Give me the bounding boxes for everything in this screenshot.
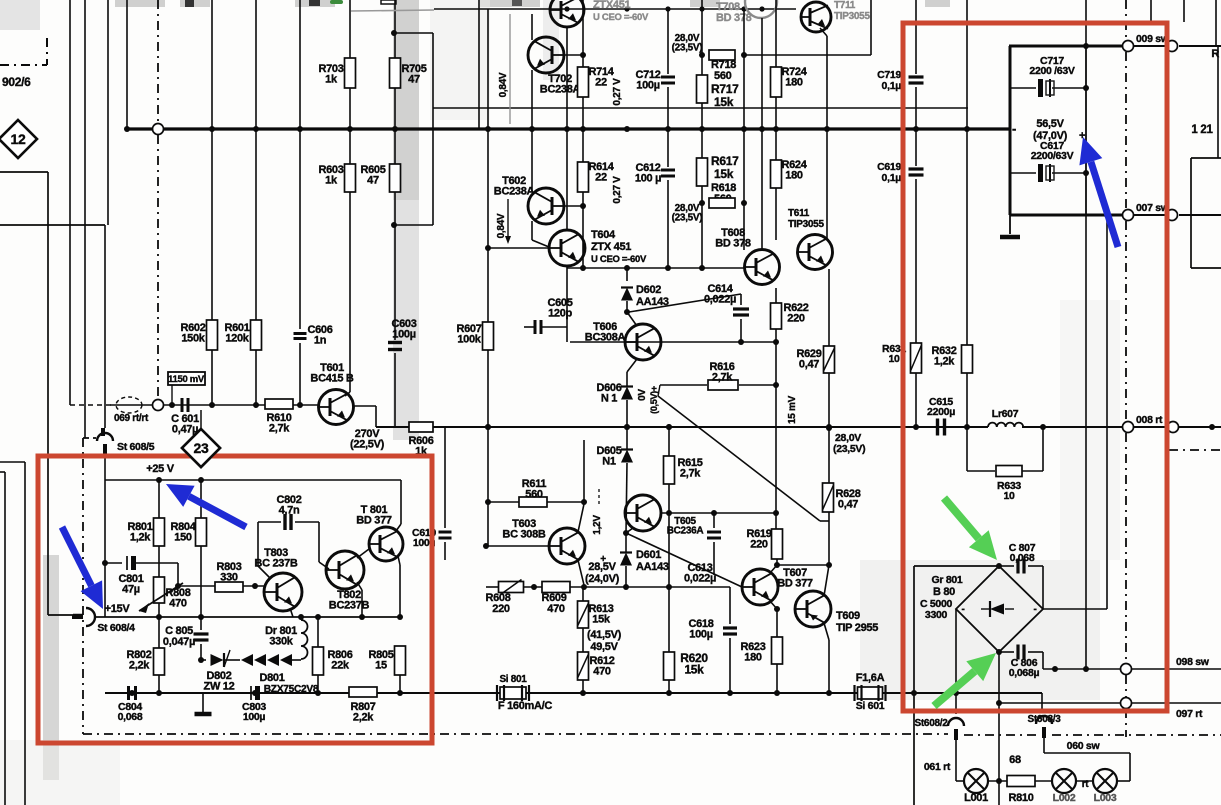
resistor R807 on bus	[349, 687, 377, 697]
svg-text:15k: 15k	[714, 95, 734, 109]
green registration mark top	[330, 0, 343, 4]
fuse Si601 F1,6A	[858, 687, 883, 699]
diode D602 AA143	[626, 268, 628, 281]
capacitor C803	[250, 686, 252, 700]
boxed label 1150mV	[168, 372, 205, 385]
measure 1,2V marks	[598, 489, 600, 505]
white box mark top	[381, 0, 396, 4]
svg-text:U CEO =-60V: U CEO =-60V	[593, 12, 649, 23]
svg-text:+: +	[600, 554, 606, 565]
resistor R605	[390, 164, 401, 192]
cap bank right rail x1086	[1085, 0, 1087, 46]
svg-text:BC238A: BC238A	[540, 83, 581, 95]
svg-text:15 mV: 15 mV	[787, 395, 798, 424]
wire C802 right to T802 base	[318, 522, 320, 562]
wire x1107 rail down	[1106, 215, 1108, 609]
wire x999 down to edge	[998, 703, 1000, 805]
svg-text:0,27 V: 0,27 V	[612, 78, 623, 106]
svg-text:B 80: B 80	[933, 586, 955, 598]
wire T602 base to R614 line	[564, 205, 583, 207]
wire vertical x532 T702 collector	[531, 14, 533, 40]
wire T607 collector	[770, 565, 777, 573]
svg-text:15k: 15k	[684, 662, 704, 676]
bridge rectifier Gr801 B80	[956, 566, 1043, 652]
svg-text:(23,5V): (23,5V)	[672, 43, 703, 54]
resistor R606 1k on rail	[409, 422, 433, 432]
svg-text:49,5V: 49,5V	[590, 641, 618, 653]
svg-text:10: 10	[1003, 490, 1015, 502]
wire diagonal to T607 base	[626, 533, 742, 587]
wire vertical x256 R601 branch	[255, 0, 257, 320]
transistor T708 BD378 (top)	[745, 0, 777, 18]
resistor R618 (horizontal)	[709, 198, 735, 208]
inductor Dr801	[301, 620, 308, 659]
dashed measure oval 069rt	[116, 397, 142, 413]
wire x829 middle	[828, 373, 830, 565]
wire 098sw line y669	[1043, 668, 1122, 670]
svg-text:180: 180	[785, 169, 803, 181]
svg-text:(0,5V)+: (0,5V)+	[649, 386, 659, 414]
svg-text:220: 220	[492, 603, 510, 615]
wire bus corner to St608/3	[1041, 693, 1043, 712]
transistor T711 TIP3055 (top)	[801, 2, 831, 32]
resistor R609	[524, 586, 542, 588]
resistor R631 (safety)	[911, 343, 922, 373]
resistor R623	[776, 609, 778, 637]
svg-text:0,068µ: 0,068µ	[1009, 667, 1040, 679]
svg-text:2,2k: 2,2k	[353, 711, 374, 723]
capacitor C807	[999, 565, 1014, 567]
svg-text:47: 47	[367, 174, 379, 186]
resistor R611	[486, 501, 519, 503]
node circle right of red box	[1168, 422, 1179, 433]
wire vertical x776 R724/R624	[775, 0, 777, 67]
wire C801 elbow to R808 wiper	[160, 562, 178, 564]
svg-text:330: 330	[220, 571, 238, 583]
svg-text:ZTX451: ZTX451	[593, 0, 631, 11]
svg-text:(41,5V): (41,5V)	[587, 629, 622, 641]
svg-text:L003: L003	[1094, 792, 1117, 804]
svg-text:0,27 V: 0,27 V	[612, 176, 623, 204]
wire bottom vertex down	[998, 652, 1000, 703]
wire T801 collector	[400, 480, 402, 524]
resistor R603	[345, 164, 356, 192]
wire T605 emitter down	[626, 528, 633, 533]
resistor R705	[390, 58, 401, 88]
wire y225 R705 branch	[394, 224, 433, 226]
resistor R616 with row	[660, 384, 707, 386]
wire vertical x567 T704-T604	[566, 27, 568, 230]
wire R810 to L002	[1035, 780, 1052, 782]
wire vertical x702 R717/R617	[701, 0, 703, 75]
svg-text:220: 220	[787, 312, 805, 324]
svg-text:098 sw: 098 sw	[1176, 656, 1210, 668]
svg-text:060 sw: 060 sw	[1067, 740, 1101, 752]
svg-text:Si 801: Si 801	[499, 674, 527, 685]
svg-text:T711: T711	[834, 0, 856, 11]
resistor R632	[962, 345, 973, 373]
svg-text:0,47µ: 0,47µ	[172, 423, 198, 435]
top edge stubs right	[1150, 0, 1152, 22]
transistor T603 BC308B	[549, 528, 585, 564]
resistor R714	[578, 67, 589, 97]
svg-text:+25 V: +25 V	[146, 463, 175, 475]
capacitor C603	[388, 341, 402, 344]
transistor T607 BD377	[742, 569, 778, 605]
wire vertical x668 C712/C612	[667, 9, 669, 74]
scan artifact bands	[393, 0, 419, 200]
wire vertical x827 T711-T611	[820, 28, 827, 36]
svg-text:56,5V: 56,5V	[1036, 118, 1064, 130]
svg-text:23: 23	[194, 440, 209, 456]
svg-text:-: -	[961, 604, 964, 615]
node circle 009sw outer	[1167, 41, 1178, 52]
ground symbol cap bank	[1009, 215, 1011, 234]
lamp L002	[1052, 769, 1076, 793]
cap bank left rail x1010	[1009, 46, 1012, 215]
svg-text:560: 560	[714, 70, 732, 82]
trimmer R608	[499, 582, 524, 593]
wire left vertical C	[107, 0, 109, 225]
svg-text:3300: 3300	[925, 609, 948, 621]
svg-text:1k: 1k	[325, 73, 338, 85]
wire vertical x212 R602 branch	[211, 0, 213, 320]
wire base line T604 y248	[488, 247, 549, 249]
wire T603 emitter	[578, 560, 584, 585]
wire 097rt line y703	[999, 702, 1120, 704]
svg-text:0V: 0V	[637, 389, 648, 401]
wire vertical x350 R703/R603	[349, 0, 351, 58]
svg-text:St 608/4: St 608/4	[97, 622, 135, 634]
node circle 009sw	[1123, 41, 1134, 52]
svg-text:180: 180	[744, 651, 762, 663]
svg-text:R810: R810	[1008, 792, 1033, 804]
svg-text:2,7k: 2,7k	[712, 371, 733, 383]
wire x159 to R802	[158, 617, 160, 648]
wire T601 emitter to bus corner	[375, 406, 377, 427]
svg-text:BC237B: BC237B	[329, 599, 370, 611]
wire main + rail x1086 down	[1085, 215, 1087, 669]
svg-text:061 rt: 061 rt	[924, 761, 951, 773]
svg-text:BD 377: BD 377	[356, 514, 392, 526]
wire T802 collector to T801 base	[357, 549, 369, 558]
svg-text:1,2k: 1,2k	[934, 355, 955, 367]
transistor T802 BC237B	[326, 551, 364, 589]
svg-text:2,7k: 2,7k	[269, 422, 290, 434]
wire +25V rail	[105, 479, 401, 481]
resistor R628 (safety)	[823, 483, 834, 512]
capacitor C618	[729, 587, 731, 624]
svg-text:D801: D801	[259, 672, 284, 684]
wire measurement line y405	[110, 404, 319, 406]
svg-text:L001: L001	[964, 792, 988, 804]
svg-text:-: -	[1012, 121, 1016, 136]
node circle x158 y405	[153, 400, 164, 411]
svg-text:100µ: 100µ	[392, 328, 416, 340]
svg-text:1150 mV: 1150 mV	[168, 374, 205, 385]
svg-text:(23,5V): (23,5V)	[672, 213, 703, 224]
svg-text:T604: T604	[591, 229, 616, 241]
capacitor C617 electrolytic	[1010, 172, 1036, 174]
connector St608/4	[73, 614, 83, 619]
wire T606 base row y342	[570, 341, 776, 343]
transistor T601 BC415B	[319, 390, 354, 425]
transistor T803 BC237B	[264, 573, 302, 611]
wire x776 to T607	[776, 559, 778, 565]
wire L001 to R810	[988, 780, 1007, 782]
wire y56 to top edge	[744, 54, 871, 56]
wire T801 emitter down	[398, 556, 400, 565]
wire vertical x488 long branch	[487, 9, 489, 546]
connector St608/2	[955, 693, 957, 714]
wire T606 collector diag	[627, 312, 637, 326]
node circle 097rt	[1121, 698, 1132, 709]
capacitor C804	[127, 686, 130, 700]
svg-text:St608/2: St608/2	[915, 718, 949, 729]
capacitor C619	[909, 167, 924, 170]
wire base line y586	[178, 585, 215, 587]
svg-text:220: 220	[750, 538, 768, 550]
capacitor C605	[534, 320, 537, 334]
wire left vertex to bus	[955, 609, 957, 693]
svg-text:68: 68	[1009, 754, 1021, 766]
svg-text:Si 601: Si 601	[856, 700, 885, 712]
resistor R601	[251, 320, 262, 350]
capacitor C614	[740, 294, 742, 305]
wire diagonal D602 to C614	[629, 294, 741, 312]
wire vertical x479	[478, 0, 480, 129]
wire vertical x776 mid	[775, 342, 777, 529]
svg-text:D602: D602	[636, 284, 661, 296]
wire +15V line	[48, 614, 73, 616]
diamond node 23	[182, 429, 220, 467]
svg-text:BZX75C2V8: BZX75C2V8	[264, 684, 319, 695]
svg-text:1k: 1k	[325, 174, 338, 186]
transistor T606 BC308A	[625, 324, 661, 360]
svg-text:100k: 100k	[457, 333, 481, 345]
wire x584 up	[583, 440, 585, 502]
node circle 098sw	[1121, 664, 1132, 675]
svg-text:1 21: 1 21	[1191, 124, 1213, 136]
svg-text:120k: 120k	[225, 332, 249, 344]
diamond node 23 overlay	[182, 429, 220, 467]
svg-text:100 µ: 100 µ	[635, 172, 661, 184]
svg-text:+15V: +15V	[105, 603, 131, 615]
svg-text:N 1: N 1	[601, 392, 617, 404]
dash-dot right edge y450	[1169, 449, 1221, 451]
main supply bus y129	[125, 127, 1009, 130]
transistor T609 TIP2955	[795, 591, 831, 627]
capacitor C612	[661, 169, 675, 172]
resistor R804	[200, 480, 202, 518]
wire R808 to +15V line	[158, 603, 160, 617]
svg-text:560: 560	[525, 488, 543, 500]
dash-dot chassis boundary y735	[83, 733, 948, 735]
wire R803 to T803	[243, 585, 264, 587]
svg-text:22: 22	[595, 76, 607, 88]
svg-text:F1,6A: F1,6A	[856, 672, 885, 684]
wire left vertical A	[69, 0, 71, 405]
resistor R717 (vertical)	[697, 75, 708, 103]
resistor R607	[483, 322, 494, 350]
dash-dot frame corner top-left	[0, 64, 47, 66]
wire L002 to L003	[1076, 780, 1093, 782]
svg-text:0,1µ: 0,1µ	[882, 80, 902, 92]
capacitor C806	[999, 651, 1014, 653]
svg-text:BC 237B: BC 237B	[254, 557, 297, 569]
wire vertical x532 T702-T602	[531, 70, 533, 191]
svg-text:BC415 B: BC415 B	[310, 372, 353, 384]
wire x105 St608/5 to +15V	[104, 446, 106, 480]
junction dots on y427	[421, 424, 427, 430]
wire vertical x967 R632	[966, 0, 968, 345]
node circle 008rt	[1123, 422, 1134, 433]
lamp L001	[964, 769, 988, 793]
green arrow to bridge bottom	[934, 671, 975, 706]
capacitor C719	[909, 75, 924, 78]
dash-dot boundary vertical x158	[157, 0, 159, 123]
resistor R806	[317, 617, 319, 647]
svg-text:15: 15	[375, 659, 387, 671]
svg-text:2200µ: 2200µ	[927, 406, 955, 418]
ground stub PSU	[202, 693, 204, 712]
svg-text:097 rt: 097 rt	[1176, 708, 1203, 720]
nested corner wires bottom-left	[0, 461, 25, 463]
wire left vertical D	[126, 0, 128, 129]
wire vertical x916 C719/C619	[915, 0, 917, 74]
blue arrow to St608/4	[62, 527, 91, 586]
resistor R718 (horizontal)	[709, 50, 735, 60]
wire diagonal R616 to x829	[658, 385, 660, 396]
wire y565 rail	[777, 564, 829, 566]
transistor T602 BC238A	[528, 188, 564, 224]
capacitor C610	[444, 427, 446, 528]
wire long rail y108	[433, 107, 968, 109]
svg-text:0,068: 0,068	[118, 711, 143, 723]
svg-text:T609: T609	[836, 610, 860, 622]
svg-text:(23,5V): (23,5V)	[833, 443, 865, 455]
svg-text:1,2k: 1,2k	[130, 531, 151, 543]
fuse Si801	[500, 687, 526, 699]
scan mottling	[860, 560, 1100, 700]
diode D601 AA143	[625, 533, 627, 553]
wire C802 left to T803 collector	[257, 522, 259, 566]
capacitor C802	[258, 521, 281, 523]
transistor T702 BC238A	[528, 37, 564, 73]
svg-text:47: 47	[408, 73, 420, 85]
wire bridge top-left y566	[914, 565, 999, 567]
resistor R615	[668, 427, 670, 456]
wire T603 collector	[578, 504, 584, 532]
resistor R610	[265, 399, 293, 409]
svg-text:0,022µ: 0,022µ	[704, 293, 736, 305]
svg-text:150k: 150k	[181, 332, 205, 344]
resistor R803	[215, 582, 243, 592]
wire left horizontal y225	[0, 224, 105, 226]
svg-text:902/6: 902/6	[2, 75, 31, 89]
svg-text:(47,0V): (47,0V)	[1033, 130, 1068, 142]
wire vertical x395 R705/R605	[394, 0, 396, 58]
wire vertical x744	[743, 9, 745, 250]
capacitor C613	[713, 513, 715, 528]
transistor T608 BD378	[745, 250, 780, 285]
dash-dot to St608/5	[83, 437, 96, 439]
svg-text:470: 470	[547, 603, 565, 615]
svg-text:1,2V: 1,2V	[592, 515, 603, 535]
svg-text:0,84V: 0,84V	[496, 213, 507, 238]
svg-text:0,47: 0,47	[799, 358, 819, 370]
svg-text:4,7n: 4,7n	[279, 504, 300, 516]
capacitor C801 electrolytic	[105, 562, 122, 564]
transistor T704 ZTX451 (top)	[550, 0, 584, 27]
wire left vertical x48 down to +15V rail	[47, 172, 49, 615]
svg-text:069 rt/rt: 069 rt/rt	[114, 413, 149, 424]
svg-text:F 160mA/C: F 160mA/C	[498, 700, 553, 712]
svg-text:TIP 2955: TIP 2955	[836, 622, 878, 634]
svg-text:1n: 1n	[314, 334, 327, 346]
svg-text:15k: 15k	[714, 167, 734, 181]
svg-text:BC238A: BC238A	[494, 185, 535, 197]
capacitor C712	[661, 76, 675, 79]
capacitor C615 series on rail	[936, 419, 939, 436]
svg-text:BC 308B: BC 308B	[502, 528, 545, 540]
svg-text:(24,0V): (24,0V)	[585, 573, 620, 585]
wire vertical x433	[432, 33, 434, 225]
wire T605 base row y513	[661, 512, 777, 514]
transistor T801 BD377	[369, 527, 403, 561]
svg-text:ZW 12: ZW 12	[204, 680, 235, 692]
wire T702 base to R714 line	[564, 54, 583, 56]
resistor R805	[395, 646, 406, 675]
svg-text:TIP3055: TIP3055	[788, 219, 824, 230]
svg-text:U CEO =-60V: U CEO =-60V	[591, 254, 647, 265]
resistor R703	[345, 58, 356, 88]
svg-text:0,47: 0,47	[838, 498, 858, 510]
wire 007sw rail y215	[1010, 214, 1122, 217]
svg-text:2,2k: 2,2k	[129, 659, 150, 671]
svg-text:47µ: 47µ	[122, 583, 140, 595]
red annotation box left	[38, 456, 432, 743]
svg-text:R717: R717	[711, 82, 739, 96]
svg-text:-: -	[1033, 604, 1036, 615]
wire vertical x762 T708-T608	[761, 18, 763, 250]
inductor Lr607	[988, 423, 1023, 427]
resistor R724	[771, 67, 782, 97]
svg-text:0,047µ: 0,047µ	[163, 636, 195, 648]
snubber loop R633	[966, 427, 968, 471]
wire T603 base	[486, 545, 549, 547]
wire T609 collector	[824, 565, 829, 596]
wire T606 emitter to diode chain	[627, 359, 637, 372]
svg-text:150: 150	[174, 531, 192, 543]
svg-text:180: 180	[785, 76, 803, 88]
svg-text:470: 470	[593, 665, 611, 677]
resistor R802	[154, 648, 165, 675]
resistor R624	[771, 160, 782, 188]
wire T803 emitter to +15V	[290, 608, 293, 617]
wire x201 down	[200, 546, 202, 617]
wire vertical x627 diode chain	[626, 372, 628, 386]
wire x105 vertical to St608/5	[104, 225, 106, 428]
resistor R620	[664, 652, 675, 680]
component box right edge	[1191, 157, 1221, 159]
svg-text:100µ: 100µ	[689, 628, 713, 640]
junction dots on main bus	[124, 126, 130, 132]
resistor R602	[207, 320, 218, 350]
svg-text:T611: T611	[788, 208, 810, 219]
capacitor C717 electrolytic	[1010, 87, 1036, 89]
wire T607 emitter	[770, 601, 777, 609]
